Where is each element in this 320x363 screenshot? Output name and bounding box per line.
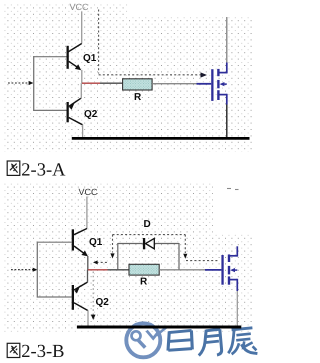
svg-text:Q1: Q1 — [89, 237, 103, 248]
svg-text:R: R — [140, 277, 148, 288]
svg-text:VCC: VCC — [79, 187, 99, 197]
svg-text:VCC: VCC — [70, 2, 90, 12]
svg-text:2-3-A: 2-3-A — [21, 160, 66, 180]
svg-text:Q2: Q2 — [84, 109, 98, 120]
svg-text:R: R — [134, 92, 142, 103]
svg-text:Q2: Q2 — [96, 297, 110, 308]
svg-text:Q1: Q1 — [83, 53, 97, 64]
svg-text:D: D — [144, 219, 151, 230]
svg-text:2-3-B: 2-3-B — [21, 342, 64, 362]
